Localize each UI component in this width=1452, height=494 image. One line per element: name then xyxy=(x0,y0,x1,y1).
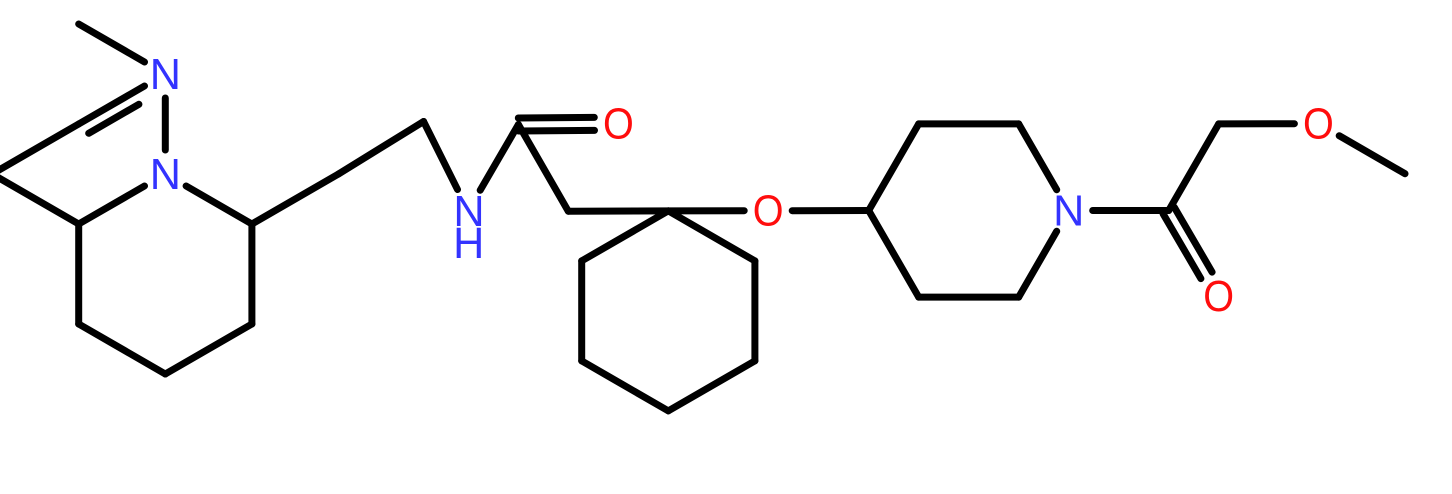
cyclohexane xyxy=(582,361,669,411)
C-CH2 xyxy=(1169,124,1219,211)
hexagon edge xyxy=(75,224,82,324)
N-methyl xyxy=(79,24,145,62)
cyclohexane xyxy=(751,261,758,361)
svg-text:O: O xyxy=(603,101,634,149)
ring edge (clipped) xyxy=(0,124,79,174)
ring edge (clipped) xyxy=(0,174,79,224)
C=O xyxy=(1163,214,1201,279)
svg-text:H: H xyxy=(453,220,484,268)
piperidine xyxy=(869,124,919,211)
svg-text:O: O xyxy=(1303,101,1334,149)
piperidine xyxy=(1019,231,1057,297)
svg-text:O: O xyxy=(1203,273,1234,321)
piperidine xyxy=(869,211,919,298)
hexagon edge xyxy=(165,324,252,374)
svg-text:N: N xyxy=(1053,187,1084,235)
cyclohexane xyxy=(668,211,755,261)
amide N-C xyxy=(480,125,518,191)
svg-text:N: N xyxy=(150,151,181,199)
O-CH3 xyxy=(1339,136,1405,174)
O-C4 piperidine xyxy=(792,207,869,214)
CH2-O xyxy=(1219,120,1295,127)
hexagon edge xyxy=(248,224,255,324)
CH2-C ring xyxy=(568,207,668,214)
hexagon edge xyxy=(79,324,166,374)
piperidine xyxy=(919,294,1019,301)
chain CH2 xyxy=(339,122,424,175)
cyclohexane xyxy=(582,211,669,261)
piperidine xyxy=(919,120,1019,127)
C-CH2 xyxy=(518,125,568,212)
chain to NH xyxy=(424,122,458,190)
C-O ether xyxy=(668,207,744,214)
amide C=O xyxy=(519,127,595,135)
piperidine xyxy=(1019,124,1057,190)
cyclohexane xyxy=(668,361,755,411)
N-N bond xyxy=(162,98,169,150)
cyclohexane xyxy=(578,261,585,361)
svg-text:O: O xyxy=(753,188,784,236)
amide N-C xyxy=(1093,207,1169,214)
chain CH2 xyxy=(252,174,339,224)
N=C double xyxy=(79,86,145,124)
ring edge xyxy=(79,186,145,224)
hexagon edge xyxy=(186,186,252,224)
svg-text:N: N xyxy=(150,51,181,99)
